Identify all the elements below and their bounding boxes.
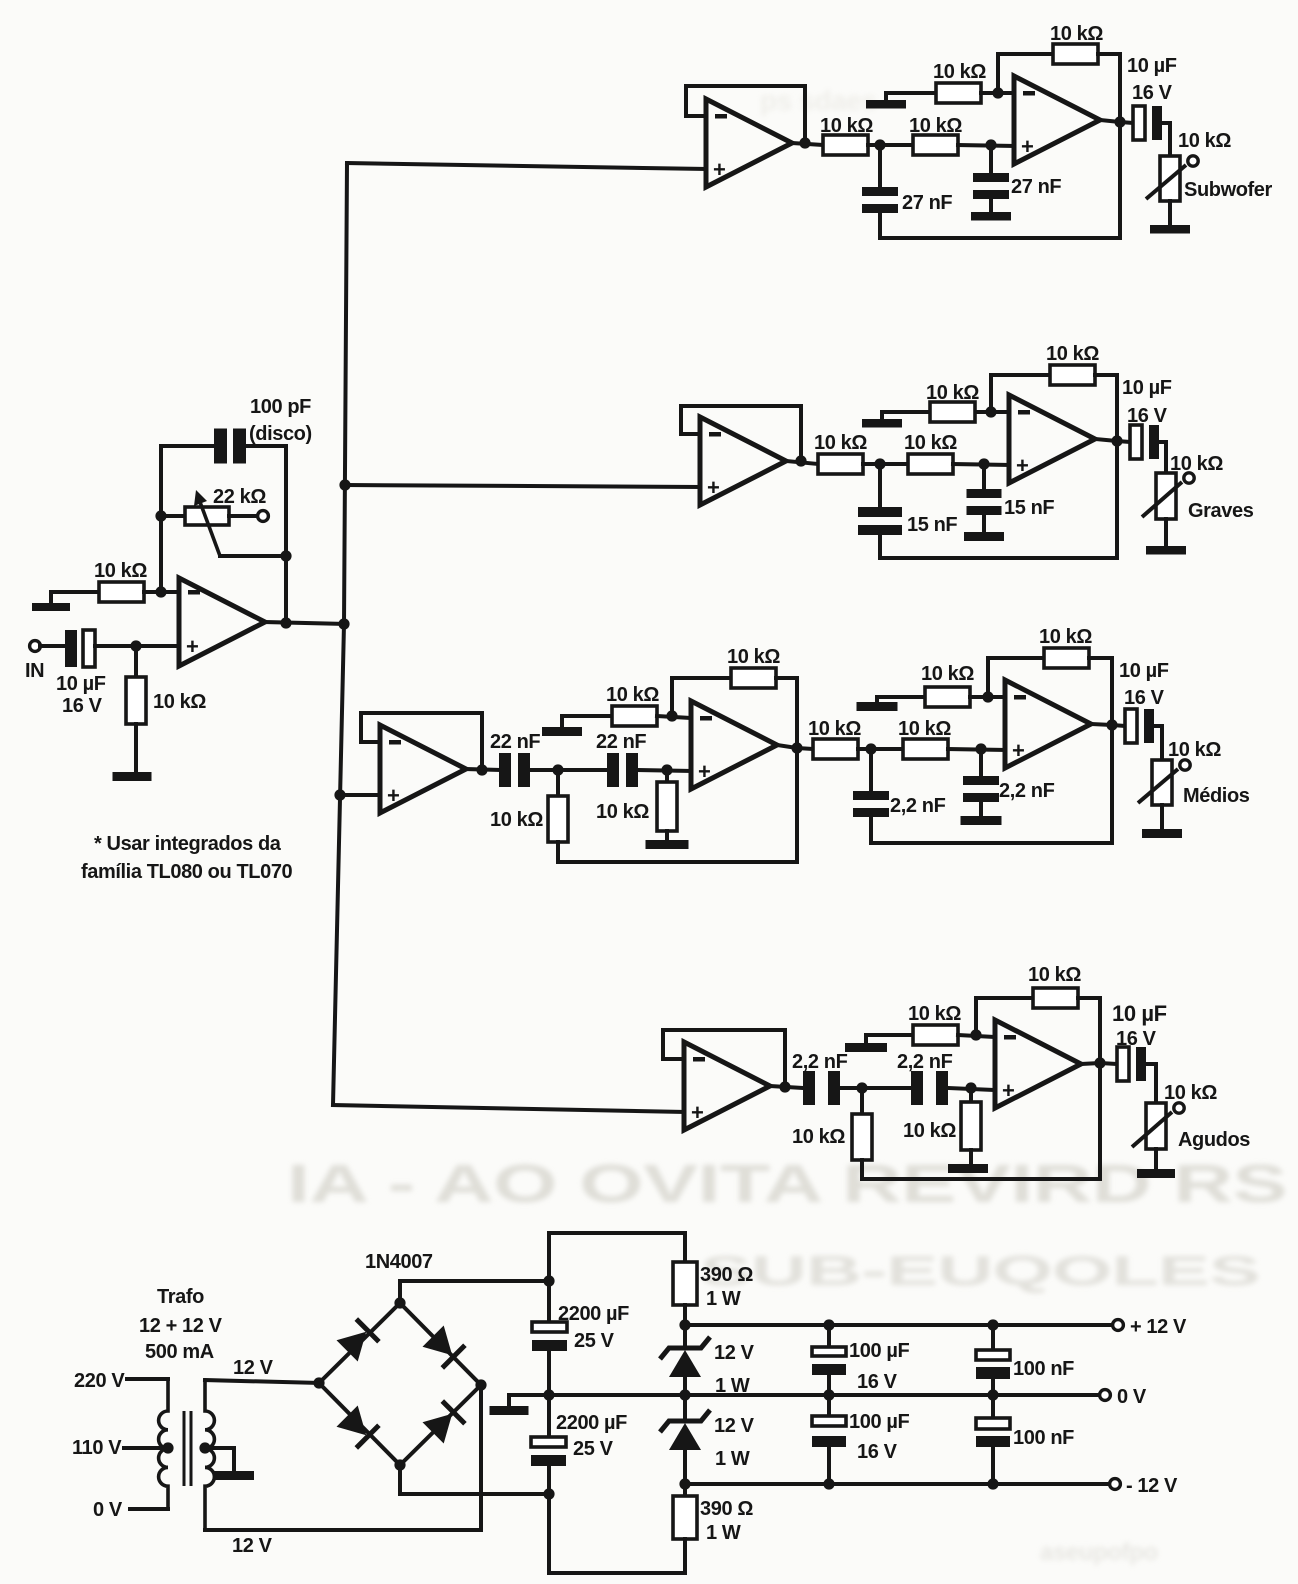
node U5 output — [1111, 435, 1122, 446]
label C8 10 uF — [1122, 377, 1172, 399]
svg-text:ps sdaes: ps sdaes — [760, 85, 877, 116]
wire center tap to ground — [205, 1448, 234, 1471]
svg-text:10 kΩ: 10 kΩ — [94, 560, 147, 582]
node U7 inverting node — [666, 710, 677, 721]
ground at R9 — [862, 419, 902, 428]
wire C2 to right vertical — [246, 444, 286, 448]
wire R1 to U1 - input — [144, 590, 179, 594]
svg-text:SUB-EUQOLES: SUB-EUQOLES — [700, 1247, 1260, 1294]
wire C7 to ground — [982, 515, 986, 532]
label C20 100 uF — [849, 1411, 909, 1433]
label R13 10 kOhm — [606, 684, 659, 706]
node minus rail at C22 — [987, 1478, 998, 1489]
label C18 2200 uF — [556, 1412, 627, 1434]
label C1 16 V — [62, 695, 103, 717]
op-amp U8 medios output — [1005, 680, 1091, 768]
op-amp U7 medios highpass — [691, 701, 777, 789]
wire C11 to bottom feedback — [869, 817, 873, 843]
label R24 1 W — [706, 1522, 741, 1544]
svg-text:+: + — [186, 634, 198, 659]
diode D3 1N4007 bottom-left — [336, 1405, 379, 1448]
svg-text:2200 µF: 2200 µF — [558, 1303, 629, 1325]
capacitor C13 10uF output — [1125, 709, 1154, 743]
wire U4 out to R7 — [786, 461, 818, 464]
wire P1 left lead — [161, 514, 185, 518]
resistor R3 10k subwoofer — [823, 135, 868, 155]
label C2 disco — [249, 423, 312, 445]
label R1 10 kOhm — [94, 560, 147, 582]
wire R24 to bottom return — [683, 1539, 687, 1573]
wire U9 out to C14 — [770, 1086, 803, 1088]
capacitor C15 2.2nF series — [911, 1071, 948, 1105]
node U9 output — [779, 1081, 790, 1092]
op-amp U3 subwoofer output — [1014, 76, 1100, 164]
wire C11 stem — [869, 749, 873, 791]
wire U3 output to C5 — [1100, 120, 1133, 123]
wire zener D6 stem — [683, 1395, 687, 1418]
capacitor C11 2.2nF feedback — [853, 791, 889, 817]
node U3 output — [1114, 116, 1125, 127]
wire rail to C17 — [547, 1281, 551, 1322]
label R12 10 kOhm — [596, 801, 649, 823]
svg-text:10 kΩ: 10 kΩ — [898, 718, 951, 740]
wire C20 stem — [827, 1395, 831, 1416]
resistor R21 10k to ground — [913, 1025, 958, 1045]
label C17 2200 uF — [558, 1303, 629, 1325]
label 220 V — [74, 1370, 125, 1392]
ground at R5 — [866, 100, 906, 109]
wire C16 to P5 — [1146, 1064, 1156, 1103]
terminal P1 open end — [258, 511, 269, 522]
capacitor C10 22nF series — [607, 753, 638, 787]
wire medios LP bottom feedback — [871, 841, 1112, 845]
capacitor C14 2.2nF series — [803, 1071, 840, 1105]
diode D2 1N4007 top-right — [422, 1325, 465, 1368]
node 0V rail at zeners — [679, 1389, 690, 1400]
label C14 2,2 nF — [792, 1051, 848, 1073]
wire C12 to ground — [979, 802, 983, 816]
node U2 output — [799, 137, 810, 148]
label C2 100 pF — [250, 396, 311, 418]
label 1N4007 — [365, 1251, 433, 1273]
wire bus to medios buffer — [340, 793, 380, 797]
node wiper on right vertical — [280, 550, 291, 561]
svg-text:10 kΩ: 10 kΩ — [490, 809, 543, 831]
wire R15 to R16 — [858, 747, 903, 751]
wire R19 to bottom feedback — [860, 1160, 864, 1179]
wire graves bottom feedback — [880, 556, 1117, 560]
svg-text:10 µF: 10 µF — [1127, 55, 1177, 77]
svg-text:16 V: 16 V — [1116, 1028, 1157, 1050]
wire 0V rail — [549, 1393, 1099, 1397]
capacitor C2 100pF feedback — [214, 429, 246, 464]
svg-text:+: + — [707, 475, 719, 500]
wire 0V ground lead — [509, 1395, 549, 1406]
node U10 inverting node — [970, 1029, 981, 1040]
wire R14 to output vertical — [776, 678, 797, 862]
wire C15 to U10 + input — [948, 1088, 995, 1090]
svg-text:- 12 V: - 12 V — [1126, 1475, 1178, 1497]
label R20 10 kOhm — [903, 1120, 956, 1142]
op-amp U6 medios buffer — [380, 725, 466, 813]
wire bus to subwoofer buffer — [347, 163, 706, 169]
node U1 inverting input — [155, 586, 166, 597]
resistor R23 390R 1W — [673, 1262, 697, 1305]
wire ground to R17 — [877, 697, 925, 702]
label P1 22 kOhm — [213, 486, 266, 508]
capacitor C16 10uF output — [1117, 1047, 1146, 1081]
wire C10 to U7 + input — [638, 770, 691, 771]
node bridge right vertex — [475, 1379, 486, 1390]
ground below C4 — [971, 212, 1011, 221]
wire R7 to R8 — [863, 462, 908, 466]
svg-text:10 kΩ: 10 kΩ — [903, 1120, 956, 1142]
terminal 0V — [1100, 1390, 1111, 1401]
wire U7 feedback up — [672, 678, 731, 716]
wire bottom return — [549, 1571, 685, 1575]
wire U3 feedback up — [998, 54, 1053, 93]
node 0V rail at filter — [543, 1389, 554, 1400]
op-amp U2 subwoofer buffer — [706, 99, 792, 187]
ground below P2 — [1150, 225, 1190, 234]
wire bias resistor stem — [134, 646, 138, 677]
terminal minus 12V — [1110, 1479, 1121, 1490]
bleed-through artifact row 2 — [700, 1247, 1260, 1294]
capacitor C3 27nF feedback — [862, 187, 898, 213]
svg-text:10 kΩ: 10 kΩ — [1164, 1082, 1217, 1104]
svg-text:1 W: 1 W — [706, 1288, 741, 1310]
wire R9 to U5 - input — [976, 410, 1009, 414]
wire U6 out to C9 — [466, 769, 499, 770]
label C1 10 uF — [56, 673, 106, 695]
label Trafo — [157, 1286, 204, 1308]
svg-text:100 µF: 100 µF — [849, 1411, 909, 1433]
label C10 22 nF — [596, 731, 646, 753]
svg-text:1 W: 1 W — [706, 1522, 741, 1544]
diode D4 1N4007 bottom-right — [422, 1401, 465, 1444]
wire R23 to plus rail — [683, 1305, 687, 1325]
wire U5 feedback up — [991, 375, 1050, 412]
node U10 output — [1094, 1057, 1105, 1068]
svg-text:(disco): (disco) — [249, 423, 312, 445]
wire C19 stem — [827, 1325, 831, 1347]
wire R24 stem — [683, 1484, 687, 1496]
wire R11 to bottom feedback — [556, 842, 560, 862]
wire C21 to 0V — [991, 1379, 995, 1395]
wire R2 to ground — [134, 724, 138, 772]
svg-text:10 kΩ: 10 kΩ — [820, 115, 873, 137]
transformer T1 primary winding — [159, 1379, 168, 1509]
wire minus rail — [685, 1482, 1109, 1486]
wire bus to agudos buffer — [333, 1105, 684, 1112]
label P4 10 kOhm — [1168, 739, 1221, 761]
wire P2 to ground — [1168, 201, 1172, 225]
svg-text:aseupofpo: aseupofpo — [1040, 1539, 1158, 1566]
potentiometer P4 10k medios — [1138, 760, 1190, 805]
svg-text:220 V: 220 V — [74, 1370, 125, 1392]
capacitor C8 10uF output — [1130, 425, 1159, 459]
capacitor C1 10uF input coupling — [65, 630, 95, 667]
node minus rail at C20 — [823, 1478, 834, 1489]
svg-text:1 W: 1 W — [715, 1448, 750, 1470]
svg-text:2,2 nF: 2,2 nF — [792, 1051, 848, 1073]
label D5 12 V — [714, 1342, 755, 1364]
wire secondary top to bridge — [205, 1380, 319, 1383]
potentiometer P1 wiper arrow — [194, 490, 220, 556]
resistor R8 10k graves — [908, 454, 953, 474]
resistor R7 10k graves — [818, 454, 863, 474]
label C16 16 V — [1116, 1028, 1157, 1050]
label 0 V output — [1117, 1386, 1147, 1408]
wire C7 stem — [982, 464, 986, 489]
capacitor C21 100nF — [976, 1350, 1010, 1379]
label secondary 12 V bottom — [232, 1535, 273, 1557]
wire U2 out to R3 — [792, 143, 823, 145]
wire medios bottom feedback — [558, 860, 797, 864]
node U8 inverting node — [982, 691, 993, 702]
svg-text:1N4007: 1N4007 — [365, 1251, 433, 1273]
wire P3 to ground — [1164, 519, 1168, 546]
transformer T1 secondary winding — [205, 1380, 214, 1530]
svg-text:IA - AO OVITA REVIRD RS: IA - AO OVITA REVIRD RS — [287, 1154, 1287, 1214]
label R8 10 kOhm — [904, 432, 957, 454]
ground below P3 — [1146, 546, 1186, 555]
svg-text:100 µF: 100 µF — [849, 1340, 909, 1362]
label R23 390 Ohm — [700, 1264, 753, 1286]
wire bus to graves buffer — [345, 485, 700, 487]
ground at R17 — [857, 702, 898, 711]
resistor R9 10k to ground — [930, 402, 975, 422]
label + 12 V — [1130, 1316, 1187, 1338]
wire R4 to U3 + input — [958, 145, 1014, 146]
svg-text:15 nF: 15 nF — [907, 514, 957, 536]
label R11 10 kOhm — [490, 809, 543, 831]
svg-text:12 + 12 V: 12 + 12 V — [139, 1315, 223, 1337]
svg-text:22 nF: 22 nF — [596, 731, 646, 753]
wire D5 to 0V rail — [683, 1375, 687, 1395]
label C20 16 V — [857, 1441, 898, 1463]
svg-text:10 kΩ: 10 kΩ — [153, 691, 206, 713]
wire C22 stem — [991, 1395, 995, 1418]
label C18 25 V — [573, 1438, 614, 1460]
svg-text:10 kΩ: 10 kΩ — [1028, 964, 1081, 986]
wire C3 to bottom feedback — [878, 213, 882, 238]
zener diode D5 12V 1W — [660, 1337, 710, 1377]
svg-text:10 kΩ: 10 kΩ — [926, 382, 979, 404]
diode D1 1N4007 top-left — [336, 1319, 379, 1362]
label C13 16 V — [1124, 687, 1165, 709]
node input bias junction — [130, 640, 141, 651]
capacitor C5 10uF output — [1133, 106, 1162, 140]
resistor R19 10k shunt — [852, 1114, 872, 1160]
node U5 inverting node — [985, 406, 996, 417]
svg-text:família TL080 ou TL070: família TL080 ou TL070 — [81, 861, 293, 883]
node 0V rail at C21 — [987, 1389, 998, 1400]
op-amp U10 agudos output — [995, 1020, 1081, 1108]
ground at R13 — [542, 727, 582, 736]
label C5 10 uF — [1127, 55, 1177, 77]
label P5 10 kOhm — [1164, 1082, 1217, 1104]
terminal IN — [30, 641, 41, 652]
wire feedback right vertical — [284, 446, 288, 623]
wire R11 stem — [556, 770, 560, 796]
wire R13 to U7 - input — [657, 716, 691, 718]
label C3 27 nF — [902, 192, 952, 214]
wire D6 to minus rail — [683, 1448, 687, 1484]
resistor R18 10k feedback — [1044, 648, 1089, 668]
svg-text:500 mA: 500 mA — [145, 1341, 214, 1363]
ground below P5 — [1137, 1169, 1175, 1178]
node subwoofer + input node — [985, 139, 996, 150]
wire U8 output to C13 — [1091, 724, 1125, 726]
wire R16 to U8 + input — [948, 749, 1005, 750]
svg-text:Médios: Médios — [1183, 785, 1250, 807]
wire bridge arm bottom-right — [400, 1385, 481, 1465]
wire C5 to P2 — [1162, 123, 1170, 156]
wire C3 stem — [878, 145, 882, 187]
label 500 mA — [145, 1341, 214, 1363]
svg-text:10 µF: 10 µF — [1122, 377, 1172, 399]
node 110V tap — [162, 1442, 173, 1453]
node bridge bottom vertex — [394, 1459, 405, 1470]
resistor R2 10k bias to ground — [126, 677, 146, 724]
label C11 2,2 nF — [890, 795, 946, 817]
resistor R22 10k feedback — [1033, 988, 1078, 1008]
wire secondary bottom to bridge — [205, 1385, 481, 1530]
op-amp U9 agudos buffer — [684, 1042, 770, 1130]
wire C13 to P4 — [1154, 726, 1162, 760]
node subwoofer filter node A — [874, 139, 885, 150]
label R21 10 kOhm — [908, 1003, 961, 1025]
svg-text:10 kΩ: 10 kΩ — [792, 1126, 845, 1148]
wire C6 to bottom feedback — [878, 535, 882, 558]
svg-text:110 V: 110 V — [72, 1437, 122, 1459]
resistor R16 10k medios LP — [903, 739, 948, 759]
node graves filter node A — [874, 458, 885, 469]
svg-text:25 V: 25 V — [573, 1438, 614, 1460]
svg-text:10 µF: 10 µF — [56, 673, 106, 695]
resistor R14 10k feedback — [731, 668, 776, 688]
node bus to medios tap — [334, 789, 345, 800]
potentiometer P1 22k feedback — [185, 507, 229, 525]
label C12 2,2 nF — [999, 780, 1055, 802]
wire U6 feedback loop — [361, 713, 482, 770]
ground at 0V rail — [490, 1406, 529, 1415]
svg-text:16 V: 16 V — [1124, 687, 1165, 709]
resistor R12 10k shunt — [657, 782, 677, 831]
svg-text:2200 µF: 2200 µF — [556, 1412, 627, 1434]
wire ground to R13 — [562, 716, 612, 727]
wire P5 to ground — [1154, 1149, 1158, 1169]
label C7 15 nF — [1004, 497, 1054, 519]
wire filter rail upper — [549, 1233, 685, 1281]
wire P1 right lead — [229, 514, 258, 518]
capacitor C4 27nF to ground — [973, 173, 1009, 199]
svg-text:10 kΩ: 10 kΩ — [921, 663, 974, 685]
ground below C7 — [964, 532, 1004, 541]
wire C14 to node — [840, 1086, 862, 1090]
wire R5 to U3 - input — [981, 91, 1014, 95]
capacitor C22 100nF — [976, 1418, 1010, 1447]
svg-text:2,2 nF: 2,2 nF — [890, 795, 946, 817]
node feedback tap at U1 output — [280, 617, 291, 628]
svg-text:22 nF: 22 nF — [490, 731, 540, 753]
svg-text:0 V: 0 V — [93, 1499, 123, 1521]
svg-text:10 kΩ: 10 kΩ — [933, 61, 986, 83]
wire bridge arm left-top — [319, 1303, 400, 1383]
label Medios — [1183, 785, 1250, 807]
label Agudos — [1178, 1129, 1250, 1151]
capacitor C18 2200uF 25V — [531, 1437, 566, 1466]
svg-text:10 kΩ: 10 kΩ — [1178, 130, 1231, 152]
label C15 2,2 nF — [897, 1051, 953, 1073]
resistor R13 10k to ground — [612, 706, 657, 726]
label C9 22 nF — [490, 731, 540, 753]
wire C12 stem — [979, 749, 983, 776]
svg-text:10 kΩ: 10 kΩ — [596, 801, 649, 823]
label C19 100 uF — [849, 1340, 909, 1362]
svg-text:+: + — [1016, 453, 1028, 478]
svg-text:390 Ω: 390 Ω — [700, 1264, 753, 1286]
wire feedback left vertical — [161, 446, 214, 592]
svg-text:100 nF: 100 nF — [1013, 1358, 1074, 1380]
resistor R17 10k to ground — [925, 687, 970, 707]
node bus to graves tap — [339, 479, 350, 490]
wire R20 to ground — [969, 1150, 973, 1164]
wire 110V lead — [124, 1446, 168, 1450]
resistor R1 10k inverting input — [99, 582, 144, 602]
svg-text:16 V: 16 V — [62, 695, 103, 717]
label C17 25 V — [574, 1330, 615, 1352]
bleed-through artifact row 1 — [287, 1154, 1287, 1214]
wire node to C15 — [862, 1086, 911, 1090]
label 0 V — [93, 1499, 123, 1521]
ground at center tap — [214, 1471, 254, 1480]
svg-text:16 V: 16 V — [1127, 405, 1168, 427]
svg-text:10 µF: 10 µF — [1112, 1001, 1167, 1026]
ground below C12 — [961, 816, 1002, 825]
wire R18 to output vertical — [1089, 658, 1112, 843]
bleed-through artifact bottom right — [1040, 1539, 1158, 1566]
wire main bus vertical — [333, 163, 347, 1105]
label D6 12 V — [714, 1415, 755, 1437]
label C16 10 uF — [1112, 1001, 1167, 1026]
node U8 output — [1106, 719, 1117, 730]
svg-text:10 µF: 10 µF — [1119, 660, 1169, 682]
wire R20 stem — [969, 1088, 973, 1102]
wire P4 to ground — [1160, 805, 1164, 829]
wire R12 to ground — [665, 831, 669, 840]
wire bridge minus output — [400, 1465, 549, 1494]
svg-text:12 V: 12 V — [714, 1342, 755, 1364]
svg-text:12 V: 12 V — [232, 1535, 273, 1557]
label D6 1 W — [715, 1448, 750, 1470]
resistor R24 390R 1W — [673, 1496, 697, 1539]
svg-text:10 kΩ: 10 kΩ — [1039, 626, 1092, 648]
wire bridge plus output — [400, 1281, 549, 1303]
node graves + input node — [978, 458, 989, 469]
label 110 V — [72, 1437, 122, 1459]
label R10 10 kOhm — [1046, 343, 1099, 365]
zener diode D6 12V 1W — [660, 1410, 710, 1450]
node bridge left vertex — [313, 1377, 324, 1388]
label R17 10 kOhm — [921, 663, 974, 685]
svg-text:12 V: 12 V — [714, 1415, 755, 1437]
node minus rail at D6 — [679, 1478, 690, 1489]
wire C4 stem — [989, 145, 993, 173]
terminal plus 12V — [1113, 1320, 1124, 1331]
label P3 10 kOhm — [1170, 453, 1223, 475]
